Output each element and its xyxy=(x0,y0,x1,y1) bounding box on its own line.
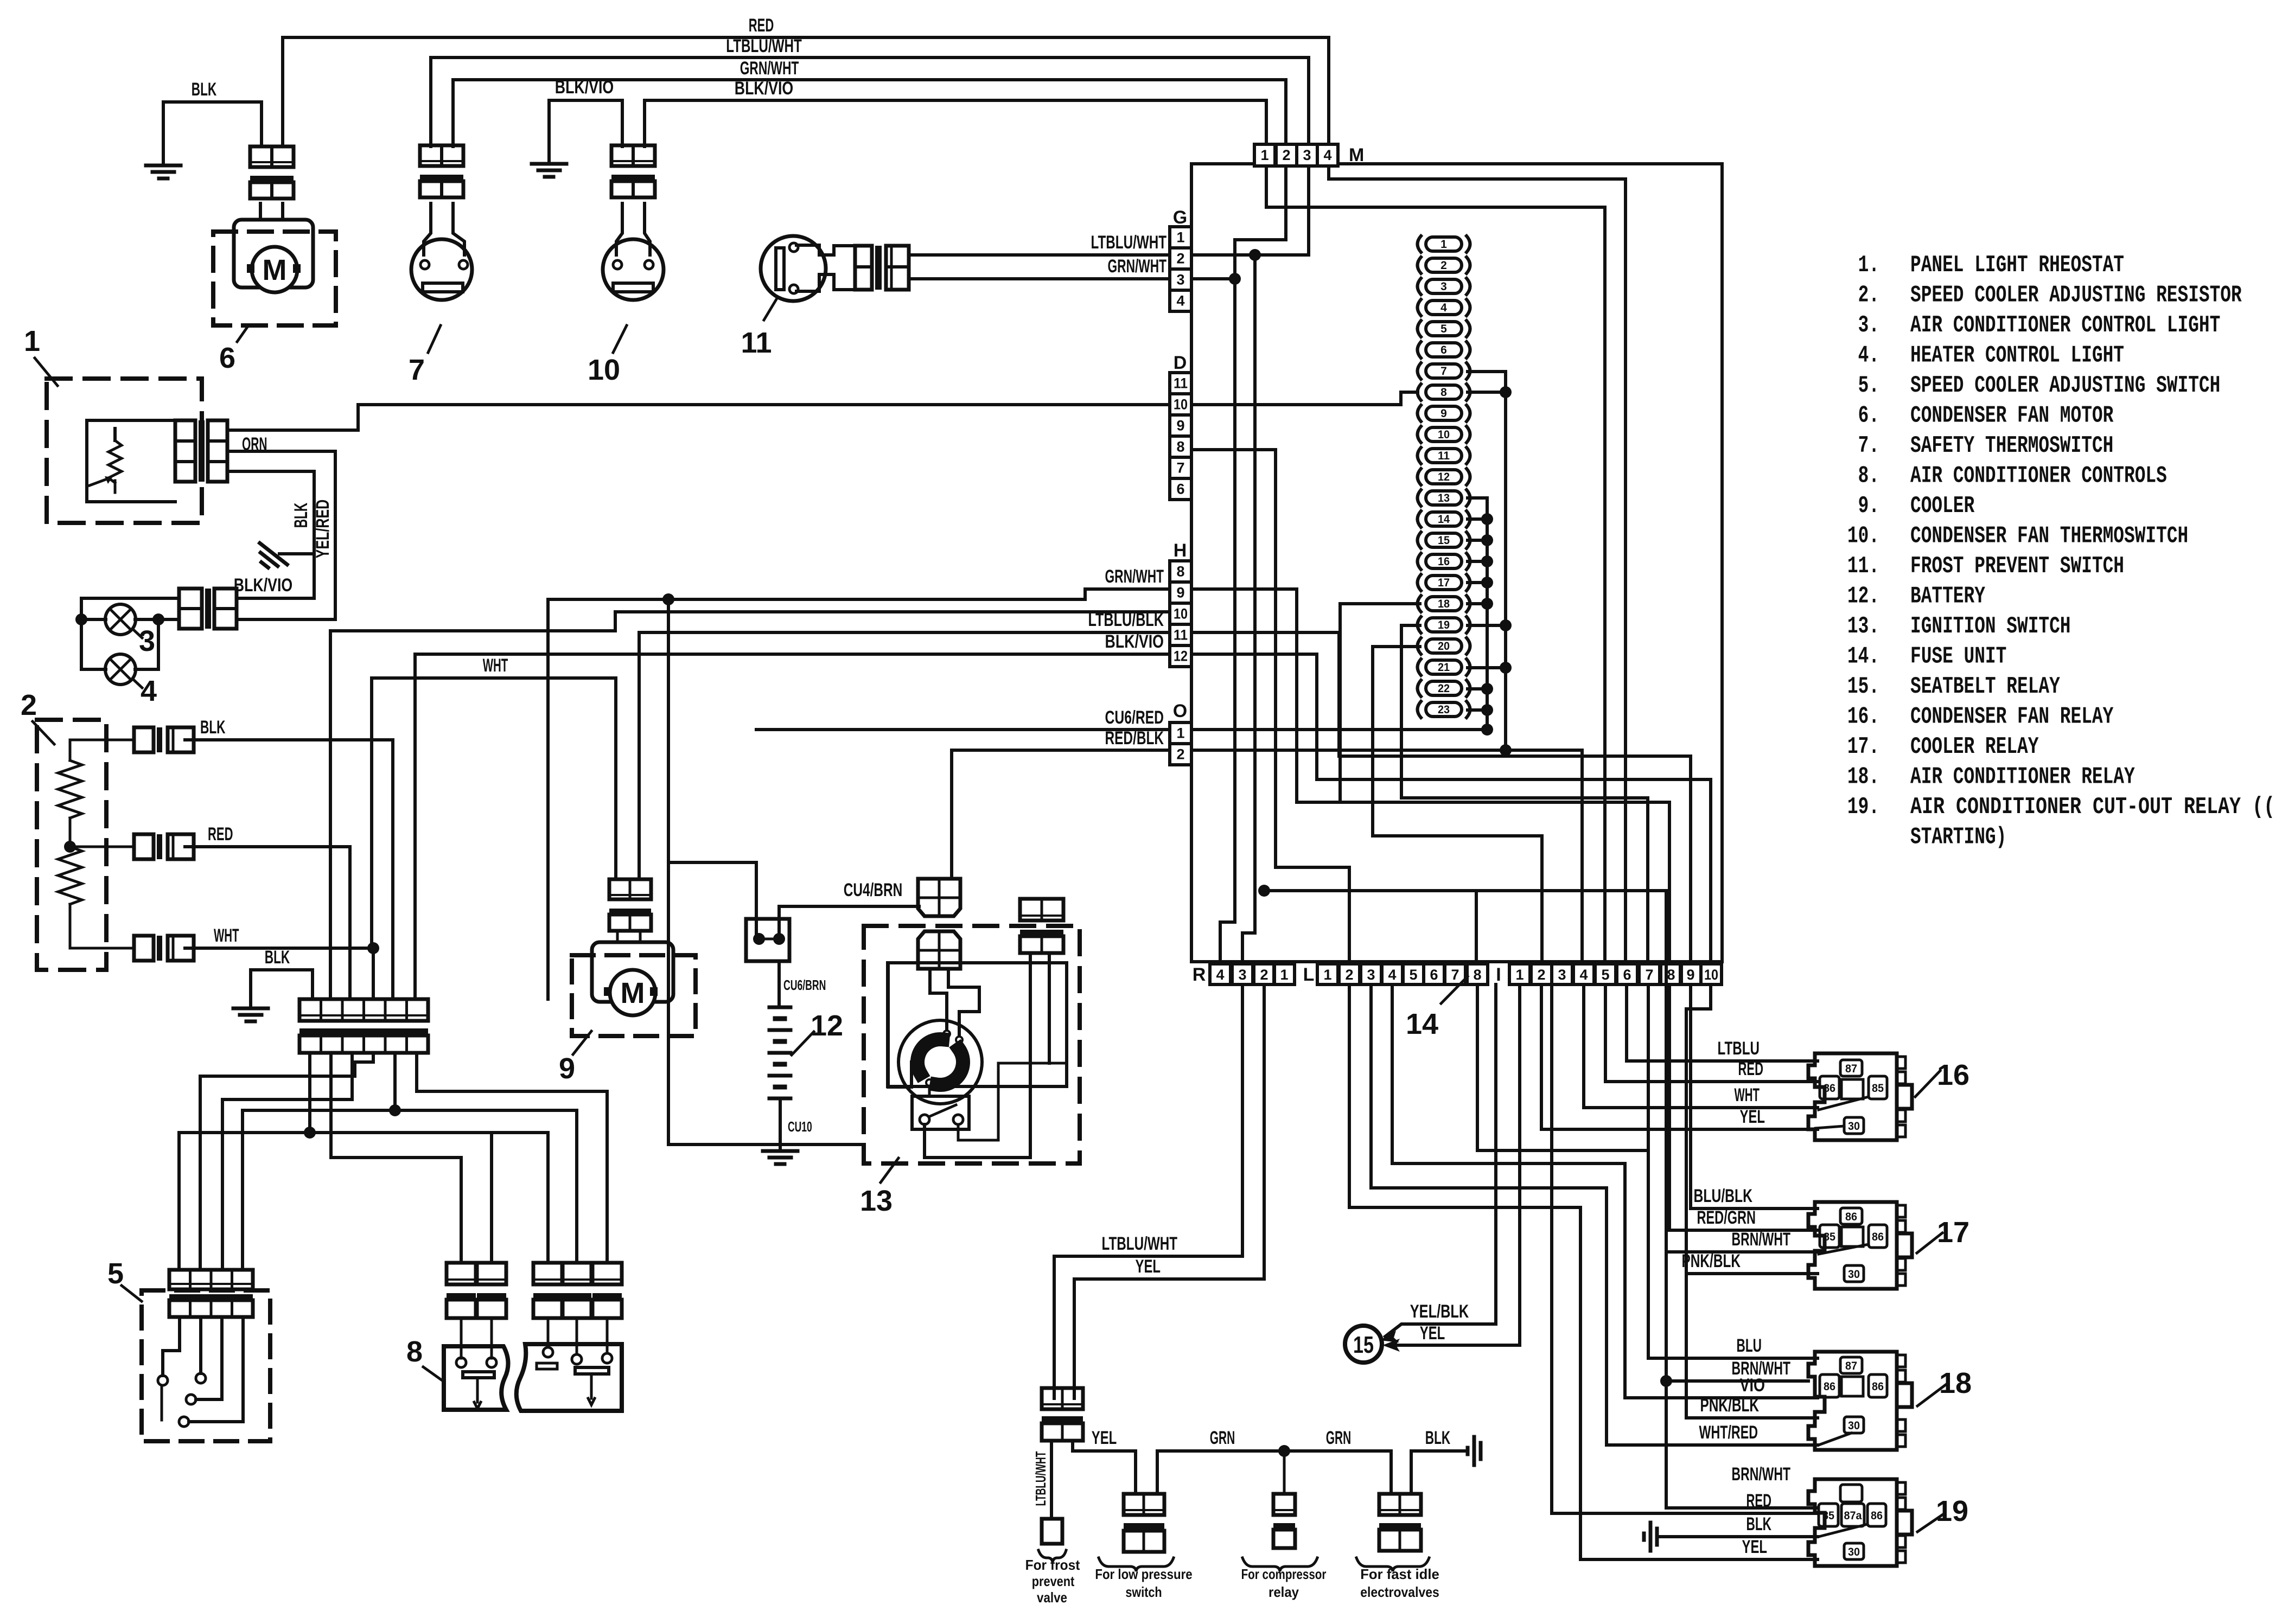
dashed box component 6 xyxy=(213,232,336,325)
dashed box component 1 xyxy=(47,379,202,523)
svg-text:5: 5 xyxy=(1409,967,1417,983)
wire RED top xyxy=(283,37,1329,146)
svg-text:YEL: YEL xyxy=(1420,1323,1445,1344)
svg-text:87: 87 xyxy=(1845,1360,1857,1372)
svg-text:1.: 1. xyxy=(1858,252,1879,279)
relay 18 body xyxy=(1808,1352,1897,1450)
comp8 right box xyxy=(517,1344,622,1411)
wire loop to ignition xyxy=(668,1143,864,1146)
svg-text:18.: 18. xyxy=(1847,764,1879,791)
svg-text:CU6/BRN: CU6/BRN xyxy=(783,977,826,993)
wire I6 LTBLU to relay 16 xyxy=(1627,984,1818,1061)
fast idle brace xyxy=(1356,1558,1429,1571)
svg-text:FUSE UNIT: FUSE UNIT xyxy=(1910,643,2006,670)
svg-text:9: 9 xyxy=(559,1052,575,1085)
svg-text:2: 2 xyxy=(1282,147,1290,163)
leads 2 xyxy=(70,739,134,741)
ground of lamps xyxy=(279,552,314,555)
connector M xyxy=(1254,144,1275,166)
svg-text:CU10: CU10 xyxy=(788,1118,812,1135)
connector above thermoswitch 10 xyxy=(611,145,655,166)
connector BLK 2 xyxy=(134,727,154,752)
svg-text:BLK: BLK xyxy=(200,717,226,738)
lamps connector xyxy=(179,589,202,629)
svg-text:21: 21 xyxy=(1438,661,1450,674)
svg-text:22: 22 xyxy=(1438,682,1450,695)
low pressure switch connector xyxy=(1124,1494,1164,1515)
wire L2 YEL to relay 19 xyxy=(1349,984,1818,1559)
svg-text:RED/GRN: RED/GRN xyxy=(1697,1207,1756,1228)
svg-text:BLK/VIO: BLK/VIO xyxy=(555,77,614,98)
svg-text:23: 23 xyxy=(1438,704,1450,716)
svg-text:3: 3 xyxy=(1303,147,1311,163)
svg-text:YEL: YEL xyxy=(1740,1107,1765,1127)
wire I2 YEL to relay 16 xyxy=(1541,984,1818,1129)
svg-text:2: 2 xyxy=(1176,251,1184,267)
ignition bottom wires xyxy=(925,1124,1030,1158)
svg-text:RED: RED xyxy=(1738,1059,1764,1079)
svg-text:1: 1 xyxy=(1515,967,1524,983)
wire D7 inside xyxy=(1191,450,1349,962)
svg-text:RED: RED xyxy=(749,15,774,36)
svg-text:D: D xyxy=(1174,353,1187,373)
svg-text:WHT: WHT xyxy=(214,925,239,946)
svg-text:30: 30 xyxy=(1848,1546,1860,1558)
leads 7 xyxy=(424,203,431,255)
svg-text:3: 3 xyxy=(1238,967,1246,983)
connector block lower row xyxy=(299,1035,428,1053)
wire xyxy=(281,203,284,220)
svg-text:12.: 12. xyxy=(1847,583,1879,610)
relay 17 internal diagonal xyxy=(1819,1244,1869,1254)
svg-text:14: 14 xyxy=(1438,513,1450,526)
low pressure brace xyxy=(1099,1558,1174,1571)
svg-text:BLU/BLK: BLU/BLK xyxy=(1694,1186,1753,1206)
wire H9 inside xyxy=(1191,589,1297,802)
svg-text:L: L xyxy=(1303,964,1315,985)
svg-text:G: G xyxy=(1173,207,1187,228)
frost prevent switch 11 circle xyxy=(761,236,826,301)
svg-text:4: 4 xyxy=(141,675,157,707)
svg-text:4: 4 xyxy=(1579,967,1588,983)
svg-text:LTBLU/WHT: LTBLU/WHT xyxy=(1102,1233,1178,1254)
motor housing 6 xyxy=(234,220,313,287)
wire RED comp2 xyxy=(185,847,350,999)
svg-text:M: M xyxy=(263,254,287,286)
wire block cell2 to comp8 xyxy=(331,1053,461,1263)
svg-text:relay: relay xyxy=(1269,1584,1299,1600)
wire BLK from 1 to ground xyxy=(227,471,314,598)
svg-text:VIO: VIO xyxy=(1740,1375,1765,1396)
svg-text:13: 13 xyxy=(860,1185,893,1217)
svg-text:8: 8 xyxy=(406,1335,423,1368)
svg-text:6: 6 xyxy=(1430,967,1438,983)
rheostat internals 1 xyxy=(87,420,175,502)
comp8 left box xyxy=(444,1346,508,1410)
label 6 xyxy=(237,325,248,342)
svg-text:4: 4 xyxy=(1176,293,1184,309)
svg-text:BLU: BLU xyxy=(1737,1335,1762,1356)
wire H12 inside xyxy=(1191,654,1317,779)
svg-text:COOLER RELAY: COOLER RELAY xyxy=(1910,733,2039,760)
ignition inner box xyxy=(888,963,1067,1086)
svg-text:16.: 16. xyxy=(1847,704,1879,731)
svg-text:R: R xyxy=(1193,964,1206,985)
svg-text:86: 86 xyxy=(1824,1082,1835,1095)
wire R2 to YEL bottom xyxy=(1074,984,1264,1398)
wire CU6/RED O1 to battery area xyxy=(756,728,1169,731)
svg-text:GRN: GRN xyxy=(1326,1428,1352,1448)
wire WHT comp2 xyxy=(185,947,373,950)
wire O2 inside xyxy=(1191,750,1582,964)
svg-text:CONDENSER FAN MOTOR: CONDENSER FAN MOTOR xyxy=(1910,402,2114,430)
wire I8 RED/GRN to relay 17 xyxy=(1669,984,1818,1230)
svg-text:8: 8 xyxy=(1176,439,1184,455)
svg-text:BLK/VIO: BLK/VIO xyxy=(735,78,794,99)
svg-text:AIR CONDITIONER CONTROL LIGHT: AIR CONDITIONER CONTROL LIGHT xyxy=(1910,312,2220,339)
wires M below xyxy=(1266,166,1605,964)
svg-text:YEL: YEL xyxy=(1092,1428,1117,1448)
comp8 connectors xyxy=(447,1263,476,1284)
svg-text:2.: 2. xyxy=(1858,282,1879,309)
svg-text:1: 1 xyxy=(1280,967,1288,983)
wire GRN/WHT H9 to controls 8 xyxy=(548,589,1170,999)
wire I5 RED to relay 16 xyxy=(1605,984,1818,1082)
svg-text:9: 9 xyxy=(1176,585,1184,601)
compressor relay connector xyxy=(1273,1494,1295,1515)
frost valve brace xyxy=(1038,1550,1066,1562)
wire branch to L8 xyxy=(1475,891,1478,962)
wire BLK/VIO lamps to ground xyxy=(237,597,314,600)
wire LTBLU/BLK H11 to cooler 9 xyxy=(639,632,1170,879)
svg-text:SPEED COOLER ADJUSTING RESISTO: SPEED COOLER ADJUSTING RESISTOR xyxy=(1910,282,2242,309)
compressor relay lead xyxy=(1283,1451,1286,1494)
svg-text:8: 8 xyxy=(1667,967,1675,983)
fuse 19 left lead xyxy=(1401,625,1648,962)
wire ORN to D10 xyxy=(227,405,1169,430)
connector WHT 2 xyxy=(134,936,154,961)
svg-text:30: 30 xyxy=(1848,1420,1860,1432)
wire YEL to low pressure xyxy=(1073,1441,1136,1494)
svg-text:2: 2 xyxy=(1345,967,1353,983)
svg-text:11: 11 xyxy=(1174,375,1188,392)
svg-text:12: 12 xyxy=(811,1009,843,1042)
svg-text:3: 3 xyxy=(1440,280,1447,293)
dashed box component 2 xyxy=(37,720,106,970)
wire BLK ground to relay 19 xyxy=(1658,1535,1818,1538)
svg-text:9.: 9. xyxy=(1858,493,1879,520)
svg-text:GRN/WHT: GRN/WHT xyxy=(1105,566,1164,587)
svg-text:PNK/BLK: PNK/BLK xyxy=(1682,1251,1741,1271)
svg-text:7: 7 xyxy=(409,354,425,386)
svg-text:7: 7 xyxy=(1440,365,1447,378)
svg-text:17: 17 xyxy=(1438,577,1450,589)
wire L6 YEL/BLK to seatbelt relay 15 xyxy=(1385,984,1496,1337)
wire ignition loop xyxy=(668,599,756,862)
svg-text:M: M xyxy=(621,977,645,1009)
svg-text:6: 6 xyxy=(219,342,235,374)
fuse bank collector f13-f23 xyxy=(1468,498,1487,730)
svg-text:electrovalves: electrovalves xyxy=(1360,1584,1439,1600)
wire O1 inside to fuse bank xyxy=(1191,728,1487,731)
ignition top connector xyxy=(918,879,960,916)
battery 12 cells xyxy=(769,1006,791,1009)
svg-text:19: 19 xyxy=(1438,619,1450,631)
wire BLK/VIO long top xyxy=(645,100,1266,146)
resistor lower 2 xyxy=(58,847,82,904)
lamp 4 xyxy=(105,654,136,685)
wire H10 to connector block xyxy=(330,612,1170,999)
fuse unit fuses 1-23 xyxy=(1426,237,1462,251)
svg-text:15.: 15. xyxy=(1847,673,1879,700)
svg-text:9: 9 xyxy=(1440,407,1447,420)
svg-text:85: 85 xyxy=(1824,1231,1835,1243)
svg-text:CONDENSER FAN RELAY: CONDENSER FAN RELAY xyxy=(1910,704,2114,731)
svg-text:LTBLU/WHT: LTBLU/WHT xyxy=(1091,232,1167,253)
ignition contact box xyxy=(912,1096,969,1129)
svg-text:85: 85 xyxy=(1872,1082,1884,1095)
cooler leads xyxy=(616,931,619,942)
svg-text:30: 30 xyxy=(1848,1268,1860,1281)
svg-text:8: 8 xyxy=(1473,967,1481,983)
svg-text:3: 3 xyxy=(1558,967,1566,983)
wire WHT long to cooler 9 xyxy=(372,678,616,947)
dashed box ignition 13 xyxy=(864,926,1080,1163)
motor M circle 6 xyxy=(252,247,297,292)
label 7 xyxy=(428,325,441,353)
svg-text:COOLER: COOLER xyxy=(1910,493,1975,520)
svg-text:10: 10 xyxy=(588,354,620,386)
svg-text:YEL/BLK: YEL/BLK xyxy=(1410,1301,1469,1322)
wire L4 VIO to relay 18 xyxy=(1392,984,1818,1398)
svg-text:5: 5 xyxy=(1440,323,1447,335)
svg-text:2: 2 xyxy=(1537,967,1545,983)
ignition internal wires xyxy=(930,969,947,1030)
svg-text:AIR CONDITIONER CONTROLS: AIR CONDITIONER CONTROLS xyxy=(1910,463,2167,490)
svg-text:BRN/WHT: BRN/WHT xyxy=(1732,1464,1791,1485)
svg-text:16: 16 xyxy=(1937,1059,1969,1091)
svg-text:RED: RED xyxy=(208,824,233,845)
wire BLK comp2 to connector block xyxy=(185,740,393,999)
svg-text:11: 11 xyxy=(1174,627,1188,643)
svg-text:86: 86 xyxy=(1845,1211,1857,1223)
wire L7 YEL to seatbelt relay 15 xyxy=(1394,984,1520,1345)
svg-text:BLK: BLK xyxy=(1746,1514,1772,1535)
connector 11 xyxy=(855,246,872,290)
wire BRN/WHT to relay 18 xyxy=(1666,1379,1808,1383)
wire H11 inside xyxy=(1191,632,1339,756)
cooler housing xyxy=(592,942,673,1002)
connector block black bar xyxy=(299,1028,428,1035)
wire G3 net xyxy=(1191,277,1235,280)
svg-text:9: 9 xyxy=(1686,967,1694,983)
right pair leads down xyxy=(1029,953,1032,1158)
connector block upper row xyxy=(299,999,428,1021)
relay 16 body xyxy=(1808,1053,1897,1140)
svg-text:4.: 4. xyxy=(1858,342,1879,369)
LTBLU/WHT lead down xyxy=(1050,1441,1053,1519)
wire I4 WHT to relay 16 xyxy=(1584,984,1818,1108)
svg-text:10: 10 xyxy=(1174,606,1188,622)
svg-text:6: 6 xyxy=(1623,967,1631,983)
svg-text:2: 2 xyxy=(1260,967,1268,983)
svg-text:8.: 8. xyxy=(1858,463,1879,490)
svg-text:18: 18 xyxy=(1939,1367,1972,1399)
svg-text:6.: 6. xyxy=(1858,402,1879,430)
svg-text:7: 7 xyxy=(1176,460,1184,476)
svg-text:7.: 7. xyxy=(1858,432,1879,459)
svg-text:RED/BLK: RED/BLK xyxy=(1105,728,1164,749)
wire block cell6 to comp8 xyxy=(417,1053,607,1263)
battery junction box xyxy=(746,919,789,961)
ground for thermoswitch 10 xyxy=(549,100,622,162)
svg-text:WHT: WHT xyxy=(1735,1085,1760,1105)
wire RED/BLK O2 to ignition xyxy=(952,750,1169,879)
svg-text:For compressor: For compressor xyxy=(1241,1566,1327,1582)
battery ground lead xyxy=(779,1098,782,1150)
wire GRN/WHT to G3 xyxy=(909,277,1169,280)
svg-text:13.: 13. xyxy=(1847,613,1879,640)
svg-text:12: 12 xyxy=(1174,648,1188,664)
svg-text:For low pressure: For low pressure xyxy=(1095,1566,1192,1582)
connector RED 2 xyxy=(134,834,154,859)
svg-text:CU6/RED: CU6/RED xyxy=(1105,707,1164,728)
wire CU6/BRN to battery xyxy=(777,961,781,1007)
bracket 11 xyxy=(796,245,834,255)
relay 17 body xyxy=(1808,1202,1897,1289)
svg-text:5: 5 xyxy=(1601,967,1609,983)
svg-text:85: 85 xyxy=(1822,1510,1834,1522)
svg-text:16: 16 xyxy=(1438,555,1450,568)
svg-text:6: 6 xyxy=(1440,344,1447,356)
wire BRN/WHT to relay 17 xyxy=(1666,1250,1818,1254)
dashed box component 5 xyxy=(142,1290,270,1441)
svg-text:AIR CONDITIONER RELAY: AIR CONDITIONER RELAY xyxy=(1910,764,2135,791)
svg-text:8: 8 xyxy=(1176,564,1184,580)
fuse bank collector right f7 f8 f19 f21 xyxy=(1468,372,1506,750)
svg-text:4: 4 xyxy=(1323,147,1331,163)
wire L8 BLU to relay 18 xyxy=(1477,984,1648,1150)
svg-text:BLK/VIO: BLK/VIO xyxy=(1105,631,1164,652)
connector above comp5 xyxy=(169,1270,253,1289)
svg-text:8: 8 xyxy=(1440,386,1447,399)
thermoswitch 7 circle xyxy=(411,239,472,300)
wire L3 WHT/RED to relay 18 xyxy=(1371,984,1818,1445)
svg-text:12: 12 xyxy=(1438,471,1450,483)
svg-text:3: 3 xyxy=(1367,967,1375,983)
svg-text:86: 86 xyxy=(1824,1380,1835,1393)
svg-text:AIR CONDITIONER CUT-OUT RELAY: AIR CONDITIONER CUT-OUT RELAY (( xyxy=(1910,794,2275,821)
svg-text:86: 86 xyxy=(1871,1510,1883,1522)
svg-text:H: H xyxy=(1174,540,1187,561)
svg-text:LTBLU: LTBLU xyxy=(1718,1038,1760,1059)
svg-text:1: 1 xyxy=(24,325,40,357)
svg-text:9: 9 xyxy=(1176,418,1184,434)
leads 10 xyxy=(616,203,622,255)
comp5 internals xyxy=(163,1317,180,1376)
thermoswitch 10 circle xyxy=(603,239,664,300)
inner horizontal links xyxy=(1339,756,1691,964)
wire WHT junction to block xyxy=(372,948,375,999)
wire block cell4 to comp5 xyxy=(200,1053,373,1270)
svg-text:19.: 19. xyxy=(1847,794,1879,821)
svg-text:STARTING): STARTING) xyxy=(1910,824,2006,851)
svg-text:6: 6 xyxy=(1176,481,1184,497)
wire YEL/RED down xyxy=(227,451,335,619)
wire I9 BLU/BLK to relay 17 xyxy=(1691,984,1818,1209)
connector above cooler 9 xyxy=(609,879,651,899)
svg-text:1: 1 xyxy=(1176,229,1184,246)
svg-text:CONDENSER FAN THERMOSWITCH: CONDENSER FAN THERMOSWITCH xyxy=(1910,523,2188,550)
svg-text:2: 2 xyxy=(21,689,37,721)
frost prevent valve connector xyxy=(1042,1388,1083,1409)
svg-text:YEL: YEL xyxy=(1136,1256,1161,1277)
svg-text:87a: 87a xyxy=(1844,1510,1862,1522)
wire I3 RED to relay 19 xyxy=(1552,984,1818,1513)
svg-text:For frost: For frost xyxy=(1025,1557,1080,1573)
svg-text:BATTERY: BATTERY xyxy=(1910,583,1985,610)
svg-text:5.: 5. xyxy=(1858,372,1879,399)
connector component 1 xyxy=(175,420,195,482)
fuse 18 left lead xyxy=(1340,604,1420,802)
svg-text:4: 4 xyxy=(1440,302,1447,314)
svg-text:1: 1 xyxy=(1440,238,1447,251)
svg-text:19: 19 xyxy=(1936,1495,1968,1527)
svg-text:LTBLU/WHT: LTBLU/WHT xyxy=(1032,1452,1049,1506)
wire R2 branch to BRN/WHT nets xyxy=(1264,891,1818,1508)
label 11 xyxy=(764,298,777,320)
label 4 xyxy=(133,679,142,688)
svg-text:SPEED COOLER ADJUSTING SWITCH: SPEED COOLER ADJUSTING SWITCH xyxy=(1910,372,2220,399)
svg-text:YEL: YEL xyxy=(1742,1537,1768,1557)
wire G2 net xyxy=(1191,253,1309,257)
wire ORN inside to fuse 8 xyxy=(1191,392,1418,405)
svg-text:BLK/VIO: BLK/VIO xyxy=(234,575,293,596)
svg-text:prevent: prevent xyxy=(1032,1573,1075,1589)
wire GRN/WHT top xyxy=(453,80,1286,146)
svg-text:IGNITION SWITCH: IGNITION SWITCH xyxy=(1910,613,2071,640)
resistor upper 2 xyxy=(69,740,72,760)
fuse 20 left lead xyxy=(1373,647,1542,962)
wire block cell1 to comp5 and comp8 xyxy=(179,1053,310,1270)
relay 19 internal diagonal xyxy=(1819,1524,1867,1537)
svg-text:GRN/WHT: GRN/WHT xyxy=(740,58,799,79)
connector above thermoswitch 7 xyxy=(420,145,463,166)
svg-text:BRN/WHT: BRN/WHT xyxy=(1732,1229,1791,1250)
svg-text:7: 7 xyxy=(1645,967,1653,983)
svg-text:BLK: BLK xyxy=(265,947,290,968)
svg-text:HEATER CONTROL LIGHT: HEATER CONTROL LIGHT xyxy=(1910,342,2124,369)
svg-text:11: 11 xyxy=(741,327,772,359)
lamp 3 xyxy=(105,604,136,635)
wire PNK/BLK net to relays 17 18 xyxy=(1686,984,1818,1418)
svg-text:10: 10 xyxy=(1438,429,1450,441)
svg-text:O: O xyxy=(1173,701,1187,721)
svg-text:BLK: BLK xyxy=(291,502,311,528)
wire GRN low pressure to compressor xyxy=(1157,1451,1391,1494)
svg-text:LTBLU/WHT: LTBLU/WHT xyxy=(726,36,802,56)
svg-text:3: 3 xyxy=(1176,272,1184,288)
relay 16 internal diagonal xyxy=(1819,1097,1869,1110)
compressor brace xyxy=(1242,1558,1317,1571)
connector above motor 6 xyxy=(250,146,294,167)
svg-text:10: 10 xyxy=(1704,967,1718,983)
svg-text:1: 1 xyxy=(1260,147,1269,163)
svg-text:I: I xyxy=(1496,964,1501,985)
svg-text:14: 14 xyxy=(1406,1008,1438,1040)
svg-text:PANEL LIGHT RHEOSTAT: PANEL LIGHT RHEOSTAT xyxy=(1910,252,2124,279)
wire LTBLU/WHT to G2 xyxy=(909,253,1169,257)
